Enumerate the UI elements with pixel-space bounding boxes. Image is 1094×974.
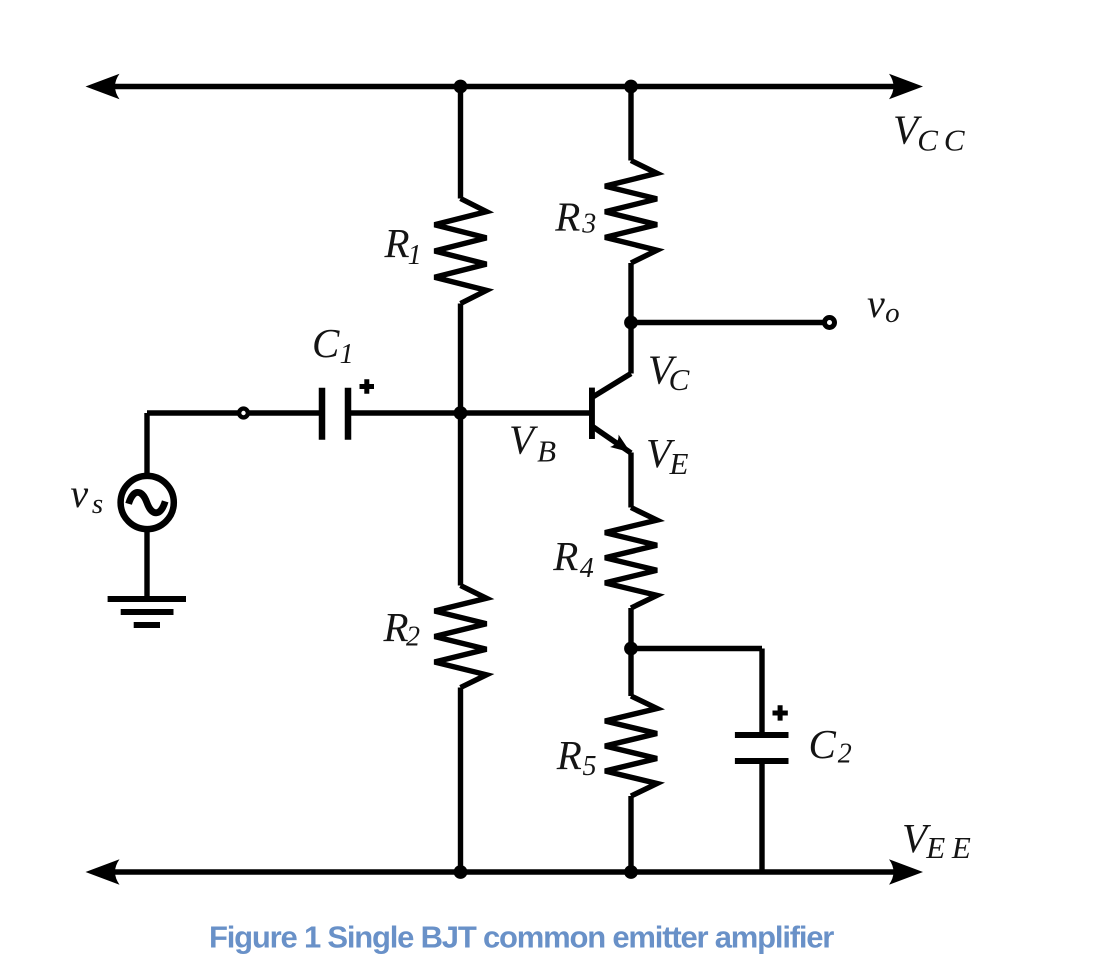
svg-text:Figure 1 Single BJT common emi: Figure 1 Single BJT common emitter ampli… (209, 920, 834, 955)
svg-text:R: R (554, 193, 580, 239)
svg-text:B: B (537, 434, 556, 469)
svg-text:CC: CC (917, 123, 970, 158)
svg-text:3: 3 (581, 208, 596, 239)
svg-text:R: R (384, 220, 410, 266)
svg-text:C: C (312, 320, 340, 366)
svg-text:EE: EE (925, 830, 977, 865)
svg-text:v: v (70, 471, 88, 516)
svg-text:1: 1 (408, 240, 422, 271)
svg-text:1: 1 (340, 339, 354, 370)
svg-text:R: R (552, 533, 578, 579)
svg-text:4: 4 (580, 553, 594, 584)
svg-text:s: s (92, 488, 103, 520)
svg-text:V: V (509, 417, 538, 463)
svg-text:C: C (809, 721, 837, 767)
svg-text:o: o (885, 297, 900, 329)
svg-text:C: C (669, 362, 690, 397)
svg-text:v: v (867, 281, 885, 326)
svg-text:2: 2 (406, 621, 420, 652)
svg-text:2: 2 (838, 738, 852, 769)
svg-text:E: E (669, 446, 689, 481)
svg-text:R: R (556, 732, 582, 778)
svg-text:5: 5 (583, 751, 597, 782)
svg-text:R: R (383, 604, 409, 650)
